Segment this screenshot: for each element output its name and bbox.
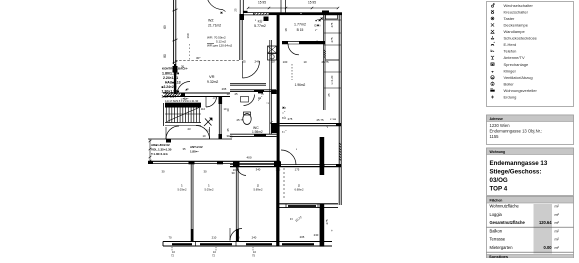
svg-text:30: 30 <box>231 171 235 175</box>
niche box top right <box>326 15 338 19</box>
svg-text:Boiler: Boiler <box>504 81 515 86</box>
svg-text:35: 35 <box>182 147 186 151</box>
legend symbol Wandlampe <box>491 30 495 33</box>
window jamb b <box>268 13 270 15</box>
svg-text:Wohnnutzfläche: Wohnnutzfläche <box>490 204 520 209</box>
wall WC bottom <box>230 133 277 135</box>
right lower window bar <box>288 205 316 207</box>
svg-text:Gesamtnutzfläche: Gesamtnutzfläche <box>490 220 526 225</box>
door leaf WZ <box>242 61 244 78</box>
door leaf hall right <box>205 97 207 108</box>
wall below Bad solid right <box>299 41 325 44</box>
svg-text:⊙■○: ⊙■○ <box>314 24 321 28</box>
svg-text:03/OG: 03/OG <box>490 177 508 184</box>
svg-text:Zi: Zi <box>298 184 301 188</box>
flaechen separator line 2 <box>487 251 574 253</box>
area table underline <box>207 43 214 45</box>
wall joint loggia shaft <box>320 164 325 167</box>
wall joint loggia corridor <box>217 161 223 164</box>
svg-text:5.03m2: 5.03m2 <box>178 188 187 192</box>
sonstiges header partial <box>487 255 574 259</box>
svg-text:3.: 3. <box>208 184 210 188</box>
legend symbol Schuckosteckdose <box>491 36 494 39</box>
door arc hall right down <box>206 97 217 108</box>
svg-text:○▪: ○▪ <box>266 101 269 105</box>
flaechen grey value column <box>534 204 553 254</box>
svg-text:1.98m2: 1.98m2 <box>252 130 263 134</box>
svg-text:m²: m² <box>555 205 560 209</box>
shaft black filled right <box>320 137 325 175</box>
dimension tick <box>337 7 339 9</box>
wall parapet bottom lower line <box>163 245 332 247</box>
wall right of WZ vertical <box>239 14 241 60</box>
svg-text:30: 30 <box>203 170 207 174</box>
legend symbol E-Herd <box>491 42 495 46</box>
svg-text:Antenne/TV: Antenne/TV <box>504 55 525 60</box>
svg-text:10: 10 <box>226 92 230 96</box>
right lower jamb a <box>285 204 287 208</box>
svg-text:5.77m2: 5.77m2 <box>254 24 266 28</box>
svg-text:Endemanngasse 13 Obj.Nr.:: Endemanngasse 13 Obj.Nr.: <box>490 129 543 134</box>
svg-text:30: 30 <box>161 170 165 174</box>
svg-text:1.80×▪: 1.80×▪ <box>190 150 198 154</box>
right strip tick 1 <box>324 19 341 21</box>
dimension tick <box>247 7 249 9</box>
WC washbasin fixture <box>241 97 249 103</box>
wall hall top horizontal lower <box>163 96 230 98</box>
door leaf at parapet <box>229 228 231 241</box>
legend symbol Telefon <box>491 50 494 52</box>
svg-text:275: 275 <box>330 22 334 27</box>
svg-text:70: 70 <box>168 236 172 240</box>
svg-text:Sprechanlage: Sprechanlage <box>504 62 529 67</box>
dimension line left edge <box>149 139 151 162</box>
svg-text:30: 30 <box>181 65 185 69</box>
svg-text:240: 240 <box>252 236 257 240</box>
wall stub above top-right <box>322 11 329 13</box>
svg-text:110: 110 <box>201 107 206 111</box>
hatch hall wall <box>164 93 183 97</box>
svg-text:WFl.ges 120.64m2: WFl.ges 120.64m2 <box>207 44 233 48</box>
dark joint WC entrance <box>258 90 263 94</box>
svg-text:25: 25 <box>234 8 238 12</box>
svg-text:Klingel: Klingel <box>504 68 516 73</box>
wall right of WZ upper line b <box>242 0 244 14</box>
door arc hall left <box>177 82 190 95</box>
svg-text:▪: ▪ <box>255 18 256 22</box>
parapet window bar 2 <box>200 243 232 245</box>
wall corridor vertical <box>218 103 220 139</box>
wall right exterior vertical <box>338 13 340 205</box>
svg-text:25: 25 <box>327 93 331 97</box>
svg-text:TOP 4: TOP 4 <box>490 186 508 193</box>
svg-text:Stiege/Geschoss:: Stiege/Geschoss: <box>490 169 542 176</box>
svg-text:✖▪: ✖▪ <box>282 106 286 110</box>
svg-text:Flächen: Flächen <box>490 198 503 202</box>
dark joint WC spine <box>271 90 277 94</box>
wall joint mid right <box>336 124 341 127</box>
svg-text:5.03m2: 5.03m2 <box>205 188 214 192</box>
wall right of WZ upper line a <box>239 0 241 14</box>
legend symbol Deckenlampe <box>491 23 494 26</box>
svg-text:25: 25 <box>315 40 319 44</box>
svg-text:25: 25 <box>242 60 246 64</box>
tick below parapet b <box>252 247 254 251</box>
svg-text:E-Herd: E-Herd <box>504 42 517 47</box>
pillar line left loggia <box>190 164 192 242</box>
wall corridor top solid <box>219 97 223 105</box>
parapet window bar 4 <box>282 243 314 245</box>
symbol blob KU below wall <box>264 17 269 22</box>
door threshold block <box>166 139 171 143</box>
svg-text:45: 45 <box>226 128 230 132</box>
svg-text:230: 230 <box>314 233 319 237</box>
staircase bottom rail <box>165 122 201 124</box>
dimension ticks left edge <box>149 140 152 162</box>
svg-text:18: 18 <box>284 28 288 32</box>
svg-text:T.1.30×1.94▪: T.1.30×1.94▪ <box>151 152 168 156</box>
flaechen header bar <box>487 197 574 204</box>
wall below Bad top line <box>282 40 325 42</box>
thin wall above top wall a <box>280 0 282 13</box>
wall loggia top left part <box>148 160 280 162</box>
svg-text:Taster: Taster <box>504 16 516 21</box>
svg-text:1230 Wien: 1230 Wien <box>490 123 511 128</box>
svg-text:400: 400 <box>246 156 251 160</box>
tick below parapet c <box>171 247 173 251</box>
svg-text:340: 340 <box>256 168 261 172</box>
right strip tick 4 <box>324 71 341 73</box>
svg-text:75: 75 <box>260 92 264 96</box>
svg-text:Sonstiges: Sonstiges <box>489 254 509 258</box>
svg-text:21.71m2: 21.71m2 <box>208 24 221 28</box>
legend symbol Antenne/TV <box>491 56 494 59</box>
svg-text:Loggia: Loggia <box>490 212 503 217</box>
svg-text:25 75: 25 75 <box>237 118 244 122</box>
staircase top landing solid <box>165 103 201 108</box>
svg-text:Mietergarten: Mietergarten <box>490 245 514 250</box>
svg-text:Deckenlampe: Deckenlampe <box>504 22 529 27</box>
wall WC bottom solid segment <box>254 134 266 136</box>
wall corridor foot solid <box>219 134 223 139</box>
wall below Bad solid left <box>282 41 288 44</box>
svg-text:m²: m² <box>555 246 560 250</box>
top dimension line <box>248 7 338 9</box>
wall below Bad bottom line <box>282 43 325 45</box>
svg-text:KÜ: KÜ <box>258 20 263 24</box>
wall left of WZ vertical <box>173 0 175 64</box>
legend symbol Ventilator/Abzug <box>491 76 494 79</box>
svg-text:6.68m2: 6.68m2 <box>295 188 304 192</box>
svg-text:1.96m2: 1.96m2 <box>295 83 306 87</box>
door arc lower hall right <box>196 126 210 140</box>
wall hall bottom horizontal <box>148 138 232 140</box>
svg-text:265: 265 <box>222 87 227 91</box>
dim tick line WZ <box>189 44 191 60</box>
svg-text:Adresse: Adresse <box>490 117 503 121</box>
svg-text:275: 275 <box>288 117 293 121</box>
svg-text:3.: 3. <box>181 184 183 188</box>
kitchen fixture cross <box>268 46 277 53</box>
svg-text:15 95: 15 95 <box>308 1 316 5</box>
svg-text:0.00: 0.00 <box>544 245 553 250</box>
svg-text:275: 275 <box>325 219 329 224</box>
dense block dark patch <box>173 66 178 73</box>
wall left entrance vertical <box>174 64 176 94</box>
window jamb a <box>253 13 255 15</box>
hall wall joint <box>181 93 185 97</box>
wall WC second solid seg <box>254 90 264 92</box>
svg-text:Endemanngasse 13: Endemanngasse 13 <box>490 160 548 167</box>
address header bar <box>487 115 574 122</box>
door arc below Bad <box>288 44 299 55</box>
svg-text:Ventilator/Abzug: Ventilator/Abzug <box>504 75 533 80</box>
svg-text:120.64: 120.64 <box>539 220 552 225</box>
svg-text:VR: VR <box>209 74 215 79</box>
svg-text:HAU■1.13: HAU■1.13 <box>165 81 181 85</box>
legend symbol Taster <box>491 17 494 20</box>
dashed line WZ bottom <box>175 60 240 62</box>
svg-text:m²: m² <box>555 213 560 217</box>
svg-text:m²: m² <box>555 221 560 225</box>
svg-text:1155: 1155 <box>490 134 500 139</box>
door arc top of WZ <box>207 0 223 10</box>
svg-text:Zi: Zi <box>257 184 260 188</box>
wall loggia top left inner <box>148 163 280 165</box>
svg-text:275: 275 <box>330 37 334 42</box>
legend symbol Sprechanlage <box>491 63 494 66</box>
dashed centerline lower corridor <box>283 168 285 200</box>
svg-text:+: + <box>331 229 333 233</box>
door arc WZ to hall <box>243 61 260 78</box>
svg-text:m²: m² <box>555 238 560 242</box>
svg-text:14×17.8/29.5·▪·2.24×1.31·90: 14×17.8/29.5·▪·2.24×1.31·90 <box>165 99 199 103</box>
svg-text:25: 25 <box>234 92 238 96</box>
svg-text:◢▪: ◢▪ <box>185 87 189 91</box>
svg-text:Telefon: Telefon <box>504 49 517 54</box>
svg-text:15 95: 15 95 <box>258 1 266 5</box>
wohnung header bar <box>487 148 574 155</box>
wall top exterior door part <box>244 12 270 14</box>
svg-text:VOL.1.35×1.30: VOL.1.35×1.30 <box>151 148 172 152</box>
svg-text:m²: m² <box>555 229 560 233</box>
wall loggia top right inner <box>230 163 341 165</box>
kitchen fixture box 1 <box>268 46 277 53</box>
staircase treads <box>166 107 199 123</box>
parapet left cap <box>162 242 164 247</box>
staircase left wall <box>163 103 165 126</box>
wall right lower bottom line <box>279 207 338 209</box>
north arrow symbol <box>204 118 212 126</box>
svg-text:×: × <box>318 152 320 156</box>
wohnung box <box>487 148 574 196</box>
parapet window bar 1 <box>172 243 192 245</box>
svg-text:175: 175 <box>295 168 300 172</box>
wall joint dark WZ right <box>240 14 244 20</box>
door arc lower hall left <box>166 126 179 139</box>
svg-text:▪: ▪ <box>296 147 297 151</box>
svg-text:Wechselschalter: Wechselschalter <box>504 3 534 8</box>
wall joint loggia a <box>148 161 153 164</box>
legend box <box>487 2 574 107</box>
wall joint loggia pillar <box>189 161 195 164</box>
door arc room right lower <box>281 150 296 165</box>
staircase mid rail <box>165 113 201 115</box>
dimension tick <box>311 7 313 9</box>
kitchen sink circle <box>270 55 274 59</box>
wall mid-right inner line <box>280 123 341 125</box>
right strip tick 3 <box>324 44 341 46</box>
right lower jamb b <box>317 204 319 208</box>
wall WC second <box>230 89 276 91</box>
svg-text:Wohnung: Wohnung <box>490 150 506 154</box>
door arc to loggia at parapet <box>230 229 242 241</box>
tick below parapet a <box>215 247 217 251</box>
wall top exterior solid <box>269 12 342 15</box>
wall loggia top right part <box>230 166 341 168</box>
svg-text:▪○: ▪○ <box>330 117 333 121</box>
right strip tick 2 <box>324 32 341 34</box>
address box <box>487 115 574 145</box>
svg-text:160: 160 <box>186 33 190 38</box>
wall connector right strip <box>325 59 339 61</box>
svg-text:205: 205 <box>300 235 305 239</box>
svg-text:10: 10 <box>303 60 307 64</box>
staircase walk line diagonal <box>167 108 199 122</box>
svg-text:Wandlampe: Wandlampe <box>504 29 526 34</box>
svg-text:Balkon: Balkon <box>490 228 503 233</box>
svg-text:AR■1.80/2.02: AR■1.80/2.02 <box>151 143 170 147</box>
pillar solid mid bottom <box>236 229 239 242</box>
svg-text:246: 246 <box>254 60 259 64</box>
staircase lower line <box>165 125 201 127</box>
wall joint loggia arc <box>233 161 240 167</box>
svg-text:Schuckosteckdose: Schuckosteckdose <box>504 36 538 41</box>
thin wall above top wall b <box>285 0 287 13</box>
svg-text:69: 69 <box>163 25 167 29</box>
svg-text:▪⊙: ▪⊙ <box>282 116 286 120</box>
svg-text:100: 100 <box>283 60 288 64</box>
wall spine vertical upper <box>277 13 280 134</box>
svg-text:■2.24×2.0: ■2.24×2.0 <box>162 85 177 89</box>
svg-text:325: 325 <box>276 168 281 172</box>
wall WC top <box>230 82 266 84</box>
dimension tick <box>268 7 270 9</box>
svg-text:5.69m2: 5.69m2 <box>254 188 263 192</box>
svg-text:30: 30 <box>226 108 230 112</box>
pillar solid left bottom <box>191 229 194 242</box>
wall joint loggia spine <box>274 161 281 167</box>
svg-text:10: 10 <box>202 134 206 138</box>
svg-text:30°: 30° <box>196 56 201 60</box>
svg-text:1.77m2: 1.77m2 <box>294 23 306 27</box>
shaft black filled right lower <box>320 204 325 247</box>
svg-text:Kreuzschalter: Kreuzschalter <box>504 9 529 14</box>
legend symbol Erdung <box>491 96 494 99</box>
svg-text:Terrasse: Terrasse <box>490 237 506 242</box>
WC toilet fixture <box>243 114 251 125</box>
svg-text:80: 80 <box>163 54 167 58</box>
svg-text:210: 210 <box>212 236 217 240</box>
parapet window bar 3 <box>246 243 272 245</box>
wall mid-right horizontal <box>280 125 341 127</box>
svg-text:L=1.20: L=1.20 <box>330 75 334 84</box>
legend symbol Wohnungsverteiler <box>490 89 494 92</box>
wall joint loggia right <box>336 164 341 167</box>
door arc loggia <box>237 166 246 175</box>
parapet jamb c <box>276 242 278 247</box>
door leaf lower hall b <box>209 127 211 139</box>
wall parapet bottom top line <box>163 241 332 243</box>
right strip tick 5 <box>324 87 341 89</box>
svg-text:25 75: 25 75 <box>317 118 324 122</box>
svg-text:ANT▪2.02: ANT▪2.02 <box>190 145 203 149</box>
hatch right strip <box>324 50 326 58</box>
parapet jamb b <box>235 242 237 247</box>
svg-text:9.32m2: 9.32m2 <box>207 80 218 84</box>
flaechen box <box>487 197 574 259</box>
dashed guide vertical <box>291 64 293 80</box>
svg-text:23: 23 <box>187 127 191 131</box>
door arc WC entrance <box>244 95 255 106</box>
kitchen fixture box 2 <box>268 54 277 61</box>
wall spine vertical middle <box>277 134 280 167</box>
legend symbol Wechselschalter <box>491 3 494 7</box>
legend symbol Kreuzschalter <box>491 10 494 14</box>
window hatch top wall <box>254 13 268 15</box>
svg-text:WZ: WZ <box>208 19 214 23</box>
svg-text:▪●: ▪● <box>333 117 336 121</box>
legend symbol Boiler <box>491 82 494 86</box>
legend symbol Klingel <box>491 71 494 73</box>
dimension tick <box>285 7 287 9</box>
flaechen separator line <box>487 226 574 228</box>
svg-text:Erdung: Erdung <box>504 95 517 100</box>
window hatch right wall <box>339 143 341 161</box>
parapet jamb a <box>195 242 197 247</box>
svg-text:Wohnungsverteiler: Wohnungsverteiler <box>504 88 538 93</box>
door leaf lower hall <box>165 127 167 139</box>
svg-text:2.24×1.31: 2.24×1.31 <box>163 76 178 80</box>
wall hall top horizontal <box>163 92 230 94</box>
svg-text:B 15: B 15 <box>297 28 304 32</box>
wall right inner vertical <box>322 13 324 110</box>
wall spine vertical lower <box>276 166 279 246</box>
svg-text:70: 70 <box>236 236 240 240</box>
pillar line mid loggia <box>235 166 237 241</box>
door leaf top WZ <box>223 10 226 12</box>
wall shaft left line <box>269 40 271 134</box>
wall stub above top-left <box>244 11 248 13</box>
dimension ticks WZ left wall <box>173 9 178 63</box>
wall right lower top line <box>279 203 338 205</box>
svg-text:Fl: Fl <box>290 217 293 221</box>
junction dark block <box>271 123 280 133</box>
